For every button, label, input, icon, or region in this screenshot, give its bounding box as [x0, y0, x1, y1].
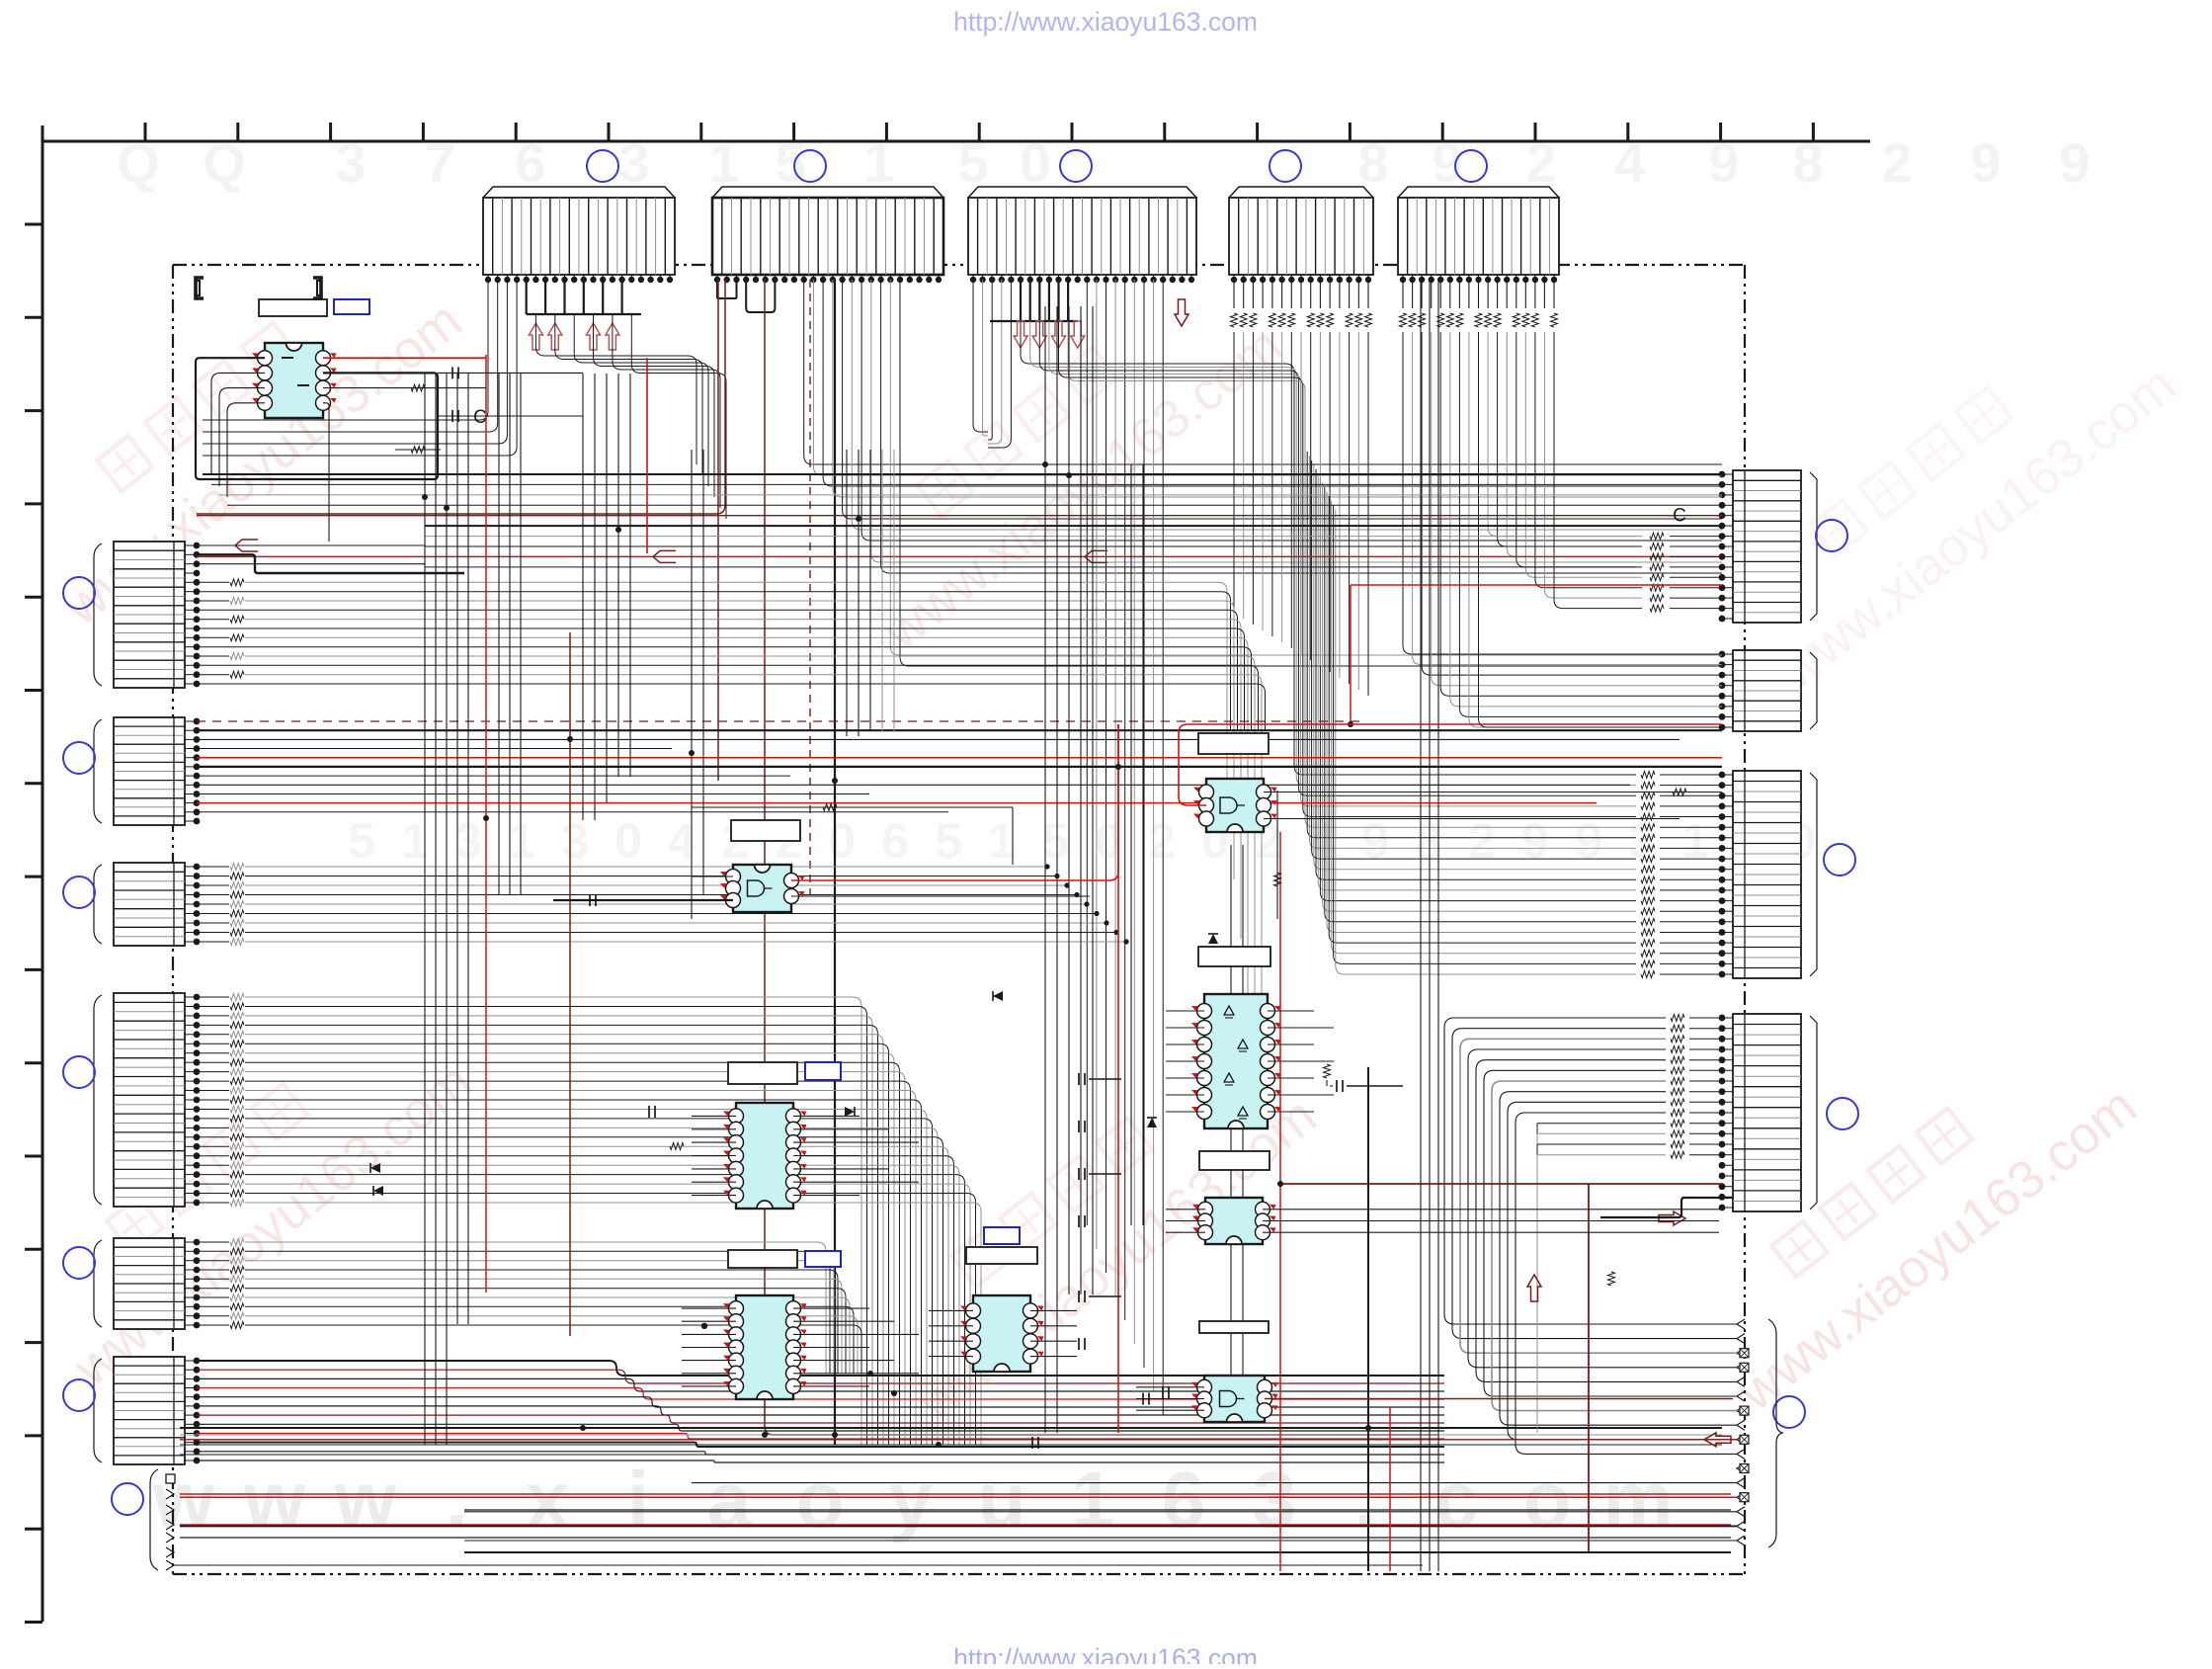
svg-text:6: 6 — [1162, 1456, 1206, 1544]
svg-text:1: 1 — [988, 813, 1016, 869]
svg-text:C: C — [473, 407, 487, 428]
svg-text:1: 1 — [1071, 1456, 1115, 1544]
svg-text:3: 3 — [561, 813, 589, 869]
svg-text:0: 0 — [828, 813, 856, 869]
svg-text:http://www.xiaoyu163.com: http://www.xiaoyu163.com — [953, 7, 1258, 37]
svg-text:u: u — [978, 1456, 1026, 1544]
svg-text:3: 3 — [1253, 1456, 1297, 1544]
svg-text:5: 5 — [348, 813, 375, 869]
svg-text:a: a — [707, 1456, 752, 1544]
svg-text:9: 9 — [1575, 813, 1602, 869]
svg-text:.: . — [1354, 1456, 1376, 1544]
svg-text:x: x — [526, 1456, 570, 1544]
svg-text:m: m — [1602, 1456, 1673, 1544]
svg-text:y: y — [889, 1456, 934, 1544]
svg-text:9: 9 — [2059, 131, 2089, 194]
svg-text:o: o — [1523, 1456, 1572, 1544]
svg-text:0: 0 — [614, 813, 642, 869]
svg-text:9: 9 — [1521, 813, 1549, 869]
svg-text:o: o — [796, 1456, 845, 1544]
svg-text:i: i — [627, 1456, 649, 1544]
svg-text:2: 2 — [1468, 813, 1496, 869]
svg-text:http://www.xiaoyu163.com: http://www.xiaoyu163.com — [953, 1643, 1258, 1664]
svg-text:w: w — [334, 1456, 397, 1544]
svg-text:.: . — [446, 1456, 467, 1544]
svg-text:1: 1 — [508, 813, 535, 869]
svg-text:9: 9 — [1361, 813, 1389, 869]
svg-text:9: 9 — [1970, 131, 2001, 194]
svg-text:2: 2 — [1881, 131, 1912, 194]
svg-text:w: w — [152, 1456, 215, 1544]
svg-text:w: w — [243, 1456, 306, 1544]
svg-text:C: C — [1673, 506, 1686, 527]
svg-text:1: 1 — [1681, 813, 1709, 869]
svg-text:5: 5 — [935, 813, 962, 869]
svg-text:c: c — [1434, 1456, 1479, 1544]
svg-text:6: 6 — [881, 813, 909, 869]
svg-text:2: 2 — [1148, 813, 1176, 869]
